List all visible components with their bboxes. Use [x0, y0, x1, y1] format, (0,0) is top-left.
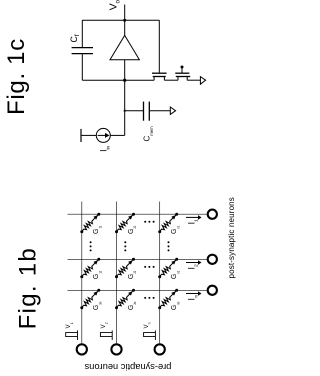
svg-text:Fig. 1c: Fig. 1c: [3, 38, 30, 115]
svg-text:Fig. 1b: Fig. 1b: [15, 247, 42, 329]
svg-text:post-synaptic neurons: post-synaptic neurons: [227, 197, 236, 278]
svg-text:pre-synaptic neurons: pre-synaptic neurons: [84, 362, 171, 372]
